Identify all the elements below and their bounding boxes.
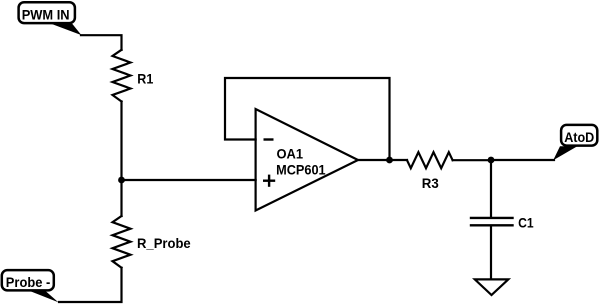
svg-text:AtoD: AtoD bbox=[564, 129, 594, 145]
wire C1 to ground bbox=[490, 227, 492, 280]
svg-text:R1: R1 bbox=[137, 71, 153, 87]
ground bbox=[475, 279, 509, 295]
wire PWM IN to R1 bbox=[81, 35, 122, 50]
net flag Probe - bbox=[2, 270, 59, 302]
svg-text:PWM IN: PWM IN bbox=[22, 7, 70, 23]
plus input marker bbox=[263, 179, 275, 181]
wire output node to R3 bbox=[390, 159, 408, 161]
op-amp OA1 MCP601 bbox=[256, 109, 358, 211]
wire feedback loop (output to - input) bbox=[225, 78, 390, 160]
capacitor C1 bbox=[471, 160, 534, 230]
node junction (R1 / R_Probe / op-amp +) bbox=[118, 177, 125, 184]
wire R_Probe to Probe - bbox=[59, 268, 122, 302]
svg-text:R3: R3 bbox=[422, 175, 439, 191]
wire RC node to AtoD bbox=[491, 159, 554, 161]
svg-text:R_Probe: R_Probe bbox=[137, 235, 191, 251]
svg-text:Probe -: Probe - bbox=[6, 274, 51, 290]
svg-text:OA1: OA1 bbox=[277, 146, 304, 162]
node output junction bbox=[386, 157, 393, 164]
resistor R1 bbox=[113, 50, 154, 102]
resistor R_Probe bbox=[113, 180, 191, 268]
wire op-amp output bbox=[358, 159, 390, 161]
node RC junction bbox=[488, 157, 495, 164]
minus input marker bbox=[264, 138, 274, 140]
net flag AtoD bbox=[553, 125, 597, 160]
resistor R3 bbox=[407, 152, 453, 191]
wire R3 to RC node bbox=[453, 159, 491, 161]
svg-text:C1: C1 bbox=[518, 214, 534, 230]
wire node to op-amp + input bbox=[122, 179, 256, 181]
net flag PWM IN bbox=[19, 2, 82, 35]
svg-text:MCP601: MCP601 bbox=[276, 162, 326, 178]
wire R1 to node bbox=[120, 102, 122, 181]
